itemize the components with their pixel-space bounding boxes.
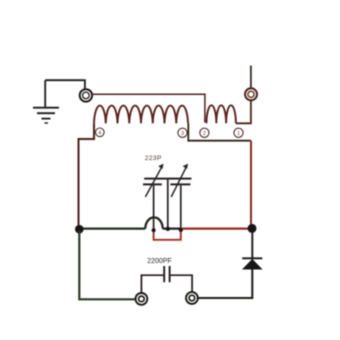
wire coil start down-left branch xyxy=(79,123,95,226)
wire C3 right lead xyxy=(170,275,193,292)
wire from left terminal to coil tap 2 xyxy=(92,94,205,122)
wire C1 bottom lead (crosses node line under hop) xyxy=(153,185,155,229)
ground xyxy=(33,80,59,123)
svg-text:3: 3 xyxy=(181,131,184,137)
terminal (right, antenna) xyxy=(245,88,257,100)
variable capacitor C1 arrow xyxy=(145,164,163,197)
wire stub above right terminal xyxy=(250,66,252,89)
junction dot right node xyxy=(248,224,257,233)
wire coil section B end to top terminal xyxy=(236,101,251,124)
coil tap ring 3 xyxy=(178,128,187,137)
coil tap ring 2 xyxy=(200,128,209,137)
coil tap ring 1 xyxy=(234,128,243,137)
wire hop over C1 lead xyxy=(145,217,162,228)
wire C2 bottom lead xyxy=(180,185,182,229)
wire bottom right to diode xyxy=(198,269,253,298)
variable capacitor C1/C2 top plate bus xyxy=(144,178,191,180)
coil tap ring 4 xyxy=(96,128,105,137)
junction dot C2 lead xyxy=(179,228,183,232)
wire right net vertical down to node xyxy=(250,141,252,225)
junction dot stator lead xyxy=(166,227,170,231)
terminal (bottom right of C3) xyxy=(186,292,198,304)
diode D1 cathode bar xyxy=(242,257,262,259)
wire red under-loop linking C1 and C2 bottom leads xyxy=(154,229,181,240)
node line left segment xyxy=(81,227,145,229)
inductor L1 section A (8 turns) xyxy=(94,106,188,124)
wire coil section A end to tap line xyxy=(188,123,251,140)
node line right segment (red) xyxy=(181,228,249,230)
svg-text:1: 1 xyxy=(237,131,240,137)
variable capacitor C2 bottom plate xyxy=(170,183,190,185)
junction dot C1 lead xyxy=(152,228,156,232)
junction dot left node xyxy=(75,225,84,234)
variable capacitor C1 bottom plate xyxy=(143,183,162,185)
svg-text:2: 2 xyxy=(203,131,206,137)
variable capacitor C2 arrow xyxy=(171,164,188,197)
svg-text:2200PF: 2200PF xyxy=(147,258,172,265)
inductor L1 section B (3 turns) xyxy=(207,105,236,123)
wire bottom-left (green) from left node to capacitor terminal xyxy=(79,231,135,299)
svg-text:4: 4 xyxy=(98,130,101,136)
wire right node down to diode xyxy=(251,233,253,258)
terminal (left, grounded) xyxy=(80,89,92,101)
capacitor C3 plates xyxy=(163,266,165,282)
wire C3 left lead xyxy=(141,275,164,293)
wire stator lead to node xyxy=(167,180,169,229)
node line middle segment xyxy=(163,228,181,230)
svg-text:223P: 223P xyxy=(145,155,162,162)
wire ground to antenna terminal xyxy=(45,80,85,89)
diode D1 anode triangle xyxy=(243,260,261,269)
terminal (bottom left of C3) xyxy=(136,293,148,305)
